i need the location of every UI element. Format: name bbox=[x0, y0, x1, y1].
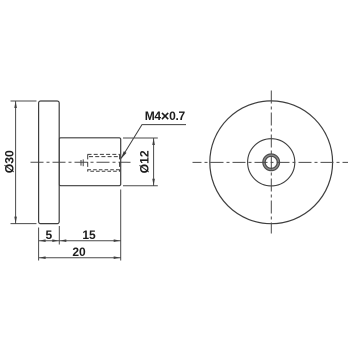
svg-text:M4×0.7: M4×0.7 bbox=[145, 109, 186, 125]
svg-text:20: 20 bbox=[72, 245, 86, 259]
svg-text:Ø30: Ø30 bbox=[3, 150, 17, 173]
svg-text:Ø12: Ø12 bbox=[137, 150, 151, 173]
svg-text:5: 5 bbox=[45, 228, 52, 242]
svg-text:15: 15 bbox=[82, 228, 96, 242]
